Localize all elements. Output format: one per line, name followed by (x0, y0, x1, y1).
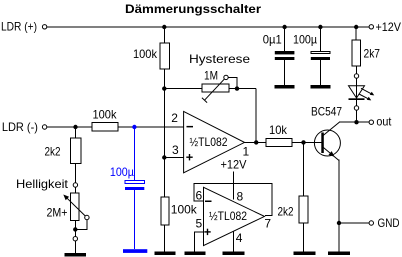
ground pin5 (185, 252, 206, 256)
wire 2k2 left top stub (75, 127, 77, 138)
resistor 2k2 left (70, 138, 81, 164)
ground cap 100u (311, 85, 331, 89)
transistor Q1 BC547 (314, 130, 340, 156)
wire opamp2 pin6 feedback hook (194, 184, 272, 216)
wire 0u1 cap stub (284, 27, 286, 52)
node top rail / 0u1 (282, 25, 286, 29)
op-amp U1a triangle (184, 111, 245, 172)
svg-text:2k7: 2k7 (364, 47, 381, 61)
svg-text:100k: 100k (171, 203, 198, 217)
op-amp U1b minus sign (205, 201, 212, 203)
svg-text:2: 2 (171, 111, 178, 125)
wire 2k2 ground stub (303, 223, 305, 252)
svg-text:100µ: 100µ (293, 32, 317, 46)
wire 100u blue cap bottom (133, 190, 135, 249)
wire 1M wiper link (228, 77, 237, 88)
op-amp U1b plus sign (204, 231, 210, 232)
ground blue cap (123, 249, 147, 253)
wire top +12V rail (47, 26, 369, 28)
potentiometer 1M hysterese (202, 84, 229, 92)
wire 2k2 base divider stub (303, 142, 305, 196)
svg-text:100k: 100k (93, 108, 118, 122)
svg-text:Helligkeit: Helligkeit (16, 177, 69, 191)
wire pot wiper link (75, 220, 87, 230)
node input / blue cap (132, 125, 136, 129)
svg-text:0µ1: 0µ1 (263, 32, 282, 46)
svg-text:GND: GND (378, 216, 400, 230)
wire 100k bottom gnd stub (163, 225, 165, 252)
ground pot (65, 253, 87, 257)
svg-text:+12V: +12V (376, 20, 402, 34)
svg-text:½TL082: ½TL082 (209, 209, 247, 223)
ground cap 0u1 (275, 85, 295, 89)
svg-text:2k2: 2k2 (45, 145, 61, 159)
svg-text:100µ: 100µ (110, 165, 134, 179)
svg-text:2k2: 2k2 (278, 205, 294, 219)
svg-text:10k: 10k (269, 123, 288, 137)
svg-text:1: 1 (243, 145, 250, 159)
node collector / out (354, 120, 358, 124)
node 1M left (162, 86, 166, 90)
node base divider (301, 140, 305, 144)
svg-text:LDR (+): LDR (+) (1, 20, 37, 34)
node input / 2k2 (73, 125, 77, 129)
wire collector to out (339, 121, 370, 123)
wire opamp1 output row (245, 141, 322, 143)
terminal LDR (-) (42, 125, 46, 129)
svg-text:LDR (-): LDR (-) (2, 120, 38, 134)
svg-text:100k: 100k (133, 47, 158, 61)
wire pin 3 stub (164, 157, 183, 159)
LED arrow 2 (359, 94, 369, 99)
node 1M wiper (235, 86, 239, 90)
node top rail / divider (162, 25, 166, 29)
wire pot gnd stub (74, 241, 76, 254)
wire 2k7 stub (355, 27, 357, 40)
wire GND row (339, 222, 369, 224)
terminal out (369, 120, 373, 124)
resistor 100k input horizontal (92, 123, 118, 132)
wire pot top stub (74, 187, 76, 193)
wire opamp2 pin8 +12V (233, 172, 235, 200)
capacitor 100u blue electrolytic (125, 181, 144, 184)
resistor 100k top divider (160, 43, 170, 69)
wire 100u cap gnd stub (319, 60, 321, 86)
wire LED column (356, 66, 358, 74)
svg-text:8: 8 (237, 190, 244, 204)
svg-text:3: 3 (172, 143, 179, 157)
svg-text:out: out (376, 115, 392, 129)
svg-text:+12V: +12V (221, 158, 247, 172)
ground emitter (328, 252, 350, 256)
LED arrow 1 (361, 88, 372, 94)
resistor 2k2 right (299, 196, 308, 223)
svg-text:6: 6 (196, 189, 203, 203)
node top rail / 2k7 (354, 25, 358, 29)
wire pot bottom stub (74, 221, 76, 237)
terminal LDR (+) (42, 25, 46, 29)
node opamp1 output (254, 140, 258, 144)
wire 100u blue cap top (133, 127, 135, 181)
svg-text:Dämmerungsschalter: Dämmerungsschalter (125, 2, 261, 16)
resistor 2k7 (352, 40, 360, 66)
svg-text:1M: 1M (204, 69, 218, 83)
svg-text:2M+: 2M+ (47, 206, 68, 220)
node top rail / 100u (318, 25, 322, 29)
ground 2k2 right (294, 252, 316, 256)
ground 100k bottom (155, 252, 176, 256)
wire 1M feedback row (164, 88, 256, 90)
potentiometer 2M+ Helligkeit (71, 193, 80, 221)
svg-text:4: 4 (236, 231, 243, 245)
wire 0u1 cap gnd stub (284, 60, 286, 86)
wire opamp2 pin4 ground (233, 231, 235, 252)
svg-text:7: 7 (264, 217, 271, 231)
op-amp U1a minus sign (187, 126, 194, 128)
capacitor 0u1 (275, 51, 295, 54)
op-amp U1a plus sign (186, 157, 192, 158)
node pot bottom (73, 227, 77, 231)
svg-text:½TL082: ½TL082 (190, 135, 228, 149)
terminal +12V (369, 25, 373, 29)
wire feedback vertical (255, 89, 257, 143)
capacitor 100u electrolytic (311, 51, 330, 53)
wire emitter column (338, 160, 340, 252)
terminal GND (369, 221, 373, 225)
wire 100u cap stub (319, 27, 321, 52)
resistor 100k bottom (161, 197, 169, 225)
node emitter / GND (337, 221, 341, 225)
svg-text:5: 5 (196, 217, 203, 231)
wire 2k2 left bottom stub (75, 164, 77, 183)
terminal pot top circle (73, 183, 77, 187)
ground pin4 (223, 252, 245, 256)
svg-text:BC547: BC547 (311, 105, 342, 119)
LED D1 (349, 86, 365, 98)
svg-text:Hysterese: Hysterese (189, 52, 250, 66)
terminal pot gnd circle (73, 237, 77, 241)
wire LDR(-) input row to pin 2 (47, 126, 184, 128)
wire opamp2 pin5 to ground (195, 232, 204, 252)
resistor 10k (266, 139, 292, 147)
node pin 3 (162, 155, 166, 159)
op-amp U1b triangle (204, 187, 265, 245)
wire divider vertical x=164 (163, 27, 165, 197)
